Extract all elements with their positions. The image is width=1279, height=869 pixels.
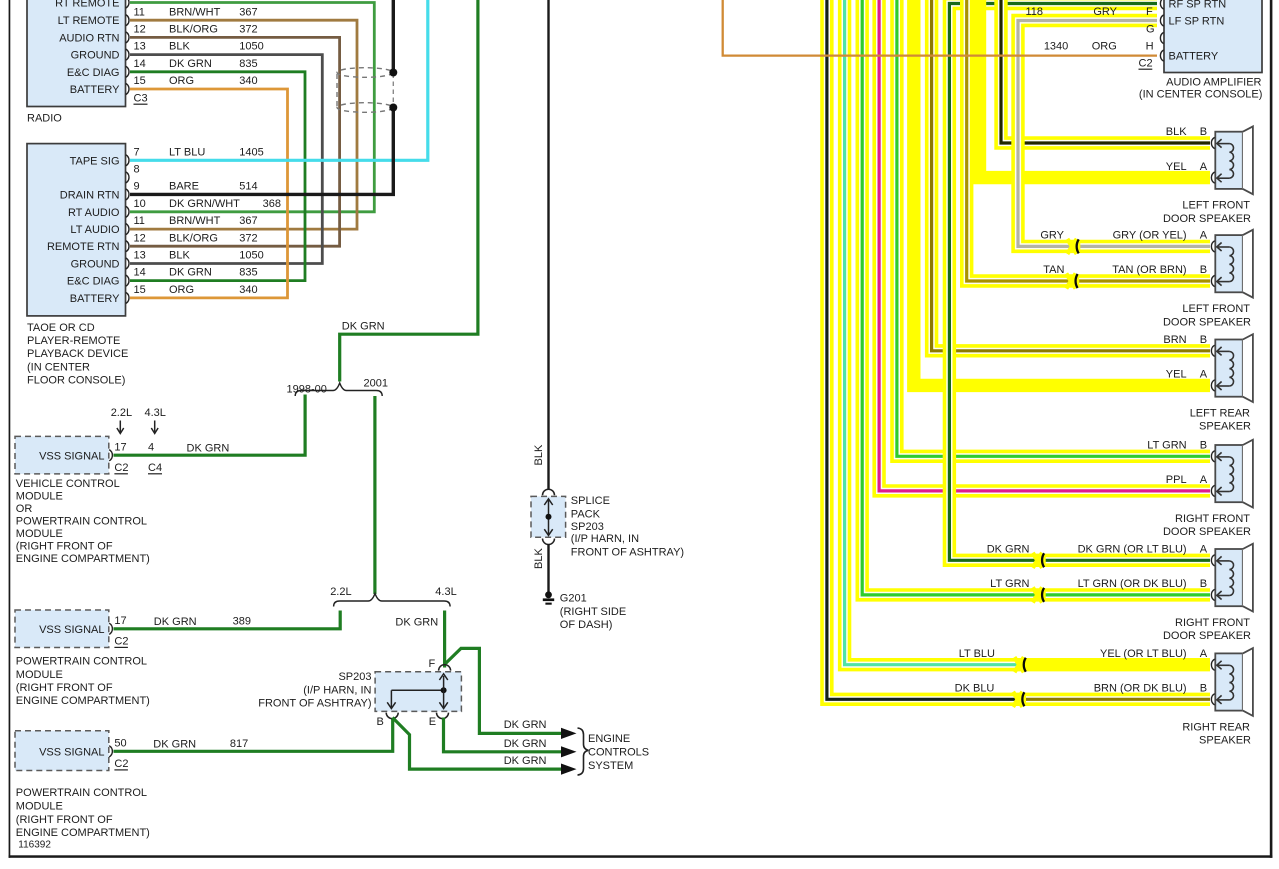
svg-text:2.2L: 2.2L (330, 586, 351, 598)
wire BLK from top to splice pack (547, 0, 549, 489)
svg-text:4: 4 (148, 441, 154, 453)
svg-text:B: B (377, 716, 384, 728)
svg-text:BRN (OR DK BLU): BRN (OR DK BLU) (1094, 683, 1187, 695)
brace engine controls system (578, 728, 589, 775)
svg-text:BLK: BLK (533, 548, 545, 569)
svg-text:GRY: GRY (1093, 6, 1117, 18)
wire DK BLU vertical to right rear speaker B (827, 0, 1021, 699)
wire RT REMOTE staircase (130, 3, 374, 212)
svg-text:1050: 1050 (239, 250, 263, 262)
svg-text:MODULE: MODULE (16, 801, 63, 813)
svg-text:RIGHT REAR: RIGHT REAR (1182, 721, 1250, 733)
svg-text:514: 514 (239, 181, 257, 193)
svg-text:DK GRN: DK GRN (169, 267, 212, 279)
svg-text:MODULE: MODULE (16, 669, 63, 681)
svg-text:POWERTRAIN CONTROL: POWERTRAIN CONTROL (16, 515, 147, 527)
VSS module 3 box (15, 731, 109, 771)
svg-text:SP203: SP203 (338, 671, 371, 683)
svg-text:F: F (429, 658, 436, 670)
svg-text:PLAYER-REMOTE: PLAYER-REMOTE (27, 335, 120, 347)
svg-text:DK GRN: DK GRN (504, 755, 547, 767)
svg-text:A: A (1200, 648, 1208, 660)
svg-text:PACK: PACK (571, 508, 601, 520)
wire 2001 branch down (373, 396, 376, 594)
wire GROUND staircase (130, 55, 322, 264)
svg-text:4.3L: 4.3L (435, 586, 456, 598)
svg-text:DK GRN: DK GRN (153, 738, 196, 750)
speaker RIGHT FRONT DOOR SPEAKER (1211, 544, 1253, 612)
svg-text:ENGINE: ENGINE (588, 733, 630, 745)
svg-text:FRONT OF ASHTRAY): FRONT OF ASHTRAY) (571, 547, 684, 559)
svg-text:B: B (1200, 440, 1207, 452)
svg-text:AUDIO RTN: AUDIO RTN (59, 32, 119, 44)
inline connector GRY row (1067, 239, 1077, 254)
svg-text:C2: C2 (1139, 58, 1153, 70)
wire LT GRN to right front door speaker B (862, 0, 1210, 595)
tape pin clip 8 (126, 172, 129, 183)
svg-text:SPEAKER: SPEAKER (1199, 421, 1251, 433)
wire GRY amp LF SP RTN to left front door speaker A (1018, 21, 1210, 247)
svg-text:DK BLU: DK BLU (955, 683, 995, 695)
svg-text:FRONT OF ASHTRAY): FRONT OF ASHTRAY) (258, 698, 371, 710)
svg-text:835: 835 (239, 267, 257, 279)
svg-text:(IN CENTER CONSOLE): (IN CENTER CONSOLE) (1139, 89, 1262, 101)
inline connector LT GRN row (1033, 587, 1043, 602)
svg-text:DRAIN RTN: DRAIN RTN (60, 189, 120, 201)
svg-text:MODULE: MODULE (16, 528, 63, 540)
svg-text:12: 12 (134, 24, 146, 36)
svg-text:OF DASH): OF DASH) (560, 619, 613, 631)
svg-text:E&C DIAG: E&C DIAG (67, 67, 120, 79)
svg-text:ORG: ORG (1092, 41, 1117, 53)
svg-text:372: 372 (239, 232, 257, 244)
arrow engine controls row 2 (561, 746, 577, 757)
svg-text:VSS SIGNAL: VSS SIGNAL (39, 450, 104, 462)
svg-text:SYSTEM: SYSTEM (588, 760, 633, 772)
svg-text:RIGHT FRONT: RIGHT FRONT (1175, 617, 1250, 629)
wire YEL to left rear speaker A (914, 0, 1210, 385)
svg-text:FLOOR CONSOLE): FLOOR CONSOLE) (27, 374, 125, 386)
svg-text:VEHICLE CONTROL: VEHICLE CONTROL (16, 478, 120, 490)
svg-text:BARE: BARE (169, 181, 199, 193)
svg-text:CONTROLS: CONTROLS (588, 746, 649, 758)
amp pin clip (1160, 50, 1163, 61)
svg-text:372: 372 (239, 24, 257, 36)
svg-text:389: 389 (233, 615, 251, 627)
svg-text:SPLICE: SPLICE (571, 495, 610, 507)
svg-text:DK GRN: DK GRN (395, 616, 438, 628)
wire DK GRN vertical from top (340, 0, 478, 382)
svg-text:B: B (1200, 334, 1207, 346)
wire E&amp;C DIAG staircase (130, 72, 305, 281)
svg-text:DK GRN: DK GRN (342, 321, 385, 333)
shield cylinder symbol (392, 74, 394, 107)
radio pin clip row 3 (126, 32, 129, 43)
radio pin clip row 5 (126, 66, 129, 77)
svg-text:LT GRN: LT GRN (990, 578, 1029, 590)
svg-text:YEL: YEL (1166, 369, 1187, 381)
svg-text:TAOE OR CD: TAOE OR CD (27, 322, 95, 334)
svg-text:GRY (OR YEL): GRY (OR YEL) (1113, 230, 1187, 242)
svg-text:11: 11 (134, 6, 145, 18)
radio pin clip row 2 (126, 15, 129, 26)
svg-text:VSS SIGNAL: VSS SIGNAL (39, 746, 104, 758)
svg-text:13: 13 (134, 250, 146, 262)
svg-text:DOOR SPEAKER: DOOR SPEAKER (1163, 630, 1251, 642)
svg-text:13: 13 (134, 41, 146, 53)
inline connector LT BLU/YEL row (1014, 657, 1024, 672)
svg-text:LT BLU: LT BLU (959, 648, 995, 660)
VSS module 1 box (15, 436, 109, 474)
svg-text:REMOTE RTN: REMOTE RTN (47, 241, 120, 253)
wire 2.2L branch to VSS2 (114, 611, 341, 629)
svg-text:RIGHT FRONT: RIGHT FRONT (1175, 513, 1250, 525)
svg-text:BRN/WHT: BRN/WHT (169, 6, 221, 18)
svg-text:BRN/WHT: BRN/WHT (169, 215, 221, 227)
svg-text:C2: C2 (114, 462, 128, 474)
svg-text:(RIGHT FRONT OF: (RIGHT FRONT OF (16, 682, 113, 694)
tape pin clip 9 (126, 189, 129, 200)
svg-text:POWERTRAIN CONTROL: POWERTRAIN CONTROL (16, 787, 147, 799)
speaker LEFT REAR SPEAKER (1211, 334, 1253, 402)
wire TAN to left front door speaker B (967, 0, 1210, 281)
svg-text:(RIGHT SIDE: (RIGHT SIDE (560, 606, 626, 618)
tape pin clip 15 (126, 292, 129, 303)
tape pin clip 14 (126, 275, 129, 286)
svg-text:LT BLU: LT BLU (169, 146, 205, 158)
year split brace 1998-00/2001 (295, 383, 382, 396)
svg-text:F: F (1146, 6, 1153, 18)
svg-text:DK GRN: DK GRN (987, 544, 1030, 556)
svg-text:A: A (1200, 369, 1208, 381)
svg-text:TAN: TAN (1043, 264, 1064, 276)
amp pin clip (1160, 32, 1163, 43)
svg-text:LEFT FRONT: LEFT FRONT (1182, 303, 1250, 315)
svg-text:LF SP RTN: LF SP RTN (1169, 16, 1225, 28)
svg-text:GRY: GRY (1040, 230, 1064, 242)
wire YEL to left front door speaker A (980, 0, 1211, 178)
speaker RIGHT FRONT DOOR SPEAKER (1211, 440, 1253, 508)
inline connector DK GRN row (1033, 553, 1043, 568)
wire YEL (OR LT BLU) right segment (1022, 658, 1210, 671)
svg-text:PLAYBACK DEVICE: PLAYBACK DEVICE (27, 348, 128, 360)
svg-text:ORG: ORG (169, 284, 194, 296)
svg-text:AUDIO AMPLIFIER: AUDIO AMPLIFIER (1166, 77, 1261, 89)
wire PPL to right front door speaker A (879, 0, 1210, 491)
svg-text:367: 367 (239, 215, 257, 227)
svg-text:340: 340 (239, 284, 257, 296)
svg-text:LT AUDIO: LT AUDIO (70, 224, 120, 236)
wire BRN (OR DK BLU) right segment (1021, 693, 1210, 706)
svg-text:9: 9 (134, 181, 140, 193)
tape pin clip 7 (126, 155, 129, 166)
svg-text:BLK: BLK (169, 250, 190, 262)
svg-text:POWERTRAIN CONTROL: POWERTRAIN CONTROL (16, 656, 147, 668)
wire ORG 1340 battery feed (723, 0, 1157, 56)
svg-text:ENGINE COMPARTMENT): ENGINE COMPARTMENT) (16, 553, 150, 565)
svg-text:GROUND: GROUND (71, 259, 120, 271)
arrow engine controls row 1 (561, 728, 577, 739)
svg-text:BLK/ORG: BLK/ORG (169, 24, 218, 36)
svg-text:SPEAKER: SPEAKER (1199, 735, 1251, 747)
svg-text:LEFT REAR: LEFT REAR (1190, 407, 1250, 419)
svg-text:BATTERY: BATTERY (70, 293, 120, 305)
svg-text:YEL (OR LT BLU): YEL (OR LT BLU) (1100, 648, 1187, 660)
svg-text:10: 10 (134, 198, 146, 210)
wire BATTERY staircase (130, 89, 288, 298)
svg-text:DK GRN: DK GRN (504, 738, 547, 750)
svg-text:17: 17 (114, 441, 126, 453)
svg-text:A: A (1200, 474, 1208, 486)
VSS module 2 box (15, 610, 109, 648)
svg-text:PPL: PPL (1166, 474, 1187, 486)
svg-text:15: 15 (134, 284, 146, 296)
svg-text:H: H (1146, 41, 1154, 53)
svg-text:15: 15 (134, 75, 146, 87)
svg-text:2.2L: 2.2L (111, 407, 132, 419)
audio amplifier box (1164, 0, 1262, 73)
svg-text:G201: G201 (560, 593, 587, 605)
wire 1998-00 branch to VSS1 (114, 395, 306, 456)
svg-text:RF SP RTN: RF SP RTN (1169, 0, 1227, 11)
radio pin clip row 6 (126, 83, 129, 94)
svg-text:DK GRN: DK GRN (154, 616, 197, 628)
svg-text:G: G (1146, 23, 1155, 35)
svg-text:BLK/ORG: BLK/ORG (169, 232, 218, 244)
svg-text:E&C DIAG: E&C DIAG (67, 276, 120, 288)
svg-text:(I/P HARN, IN: (I/P HARN, IN (303, 684, 371, 696)
svg-text:1405: 1405 (239, 146, 263, 158)
svg-text:MODULE: MODULE (16, 490, 63, 502)
svg-text:17: 17 (114, 615, 126, 627)
svg-text:TAPE SIG: TAPE SIG (70, 155, 120, 167)
svg-text:TAN (OR BRN): TAN (OR BRN) (1112, 264, 1186, 276)
inline connector DK BLU/BRN row (1013, 692, 1023, 707)
svg-text:12: 12 (134, 232, 146, 244)
svg-text:ENGINE COMPARTMENT): ENGINE COMPARTMENT) (16, 695, 150, 707)
wire splice E to engine controls row 2 (444, 718, 563, 752)
svg-text:RT REMOTE: RT REMOTE (55, 0, 119, 10)
speaker RIGHT REAR SPEAKER (1211, 648, 1253, 716)
svg-text:118: 118 (1025, 6, 1043, 18)
shield junction dots (389, 69, 397, 77)
wire BLK splice to ground (547, 544, 549, 592)
svg-text:7: 7 (134, 146, 140, 158)
wire LT BLU vertical to right rear speaker A (845, 0, 1023, 665)
wire AUDIO RTN staircase (130, 37, 340, 246)
wire LT REMOTE staircase (130, 20, 357, 229)
svg-text:(RIGHT FRONT OF: (RIGHT FRONT OF (16, 540, 113, 552)
svg-text:BLK: BLK (169, 41, 190, 53)
svg-text:ORG: ORG (169, 75, 194, 87)
svg-text:RT AUDIO: RT AUDIO (68, 207, 120, 219)
svg-text:1050: 1050 (239, 41, 263, 53)
amp pin clip (1160, 0, 1163, 9)
engine split brace 2.2L/4.3L (334, 594, 451, 607)
svg-text:1998-00: 1998-00 (287, 384, 327, 396)
svg-text:DOOR SPEAKER: DOOR SPEAKER (1163, 213, 1251, 225)
svg-text:14: 14 (134, 267, 146, 279)
svg-text:8: 8 (134, 164, 140, 176)
speaker LEFT FRONT DOOR SPEAKER (1211, 126, 1253, 194)
radio pin clip row 4 (126, 49, 129, 60)
border frame (9, 0, 11, 858)
tape pin clip 11 (126, 224, 129, 235)
svg-text:817: 817 (230, 738, 248, 750)
svg-text:14: 14 (134, 58, 146, 70)
radio pin clip row 1 (126, 0, 129, 8)
radio RADIO box (27, 0, 126, 107)
svg-text:DOOR SPEAKER: DOOR SPEAKER (1163, 526, 1251, 538)
svg-text:ENGINE COMPARTMENT): ENGINE COMPARTMENT) (16, 827, 150, 839)
svg-text:C4: C4 (148, 462, 162, 474)
svg-text:DOOR SPEAKER: DOOR SPEAKER (1163, 316, 1251, 328)
svg-text:116392: 116392 (18, 840, 51, 851)
svg-text:1340: 1340 (1044, 41, 1068, 53)
svg-text:BLK: BLK (1166, 126, 1187, 138)
svg-text:BRN: BRN (1163, 334, 1186, 346)
svg-text:GROUND: GROUND (71, 50, 120, 62)
splice pack SP203 box (F/B/E) (375, 672, 461, 712)
wire BRN to left rear speaker B (932, 0, 1210, 351)
svg-text:DK GRN: DK GRN (504, 719, 547, 731)
svg-text:E: E (429, 716, 436, 728)
svg-text:DK GRN: DK GRN (187, 442, 230, 454)
svg-text:C2: C2 (114, 758, 128, 770)
svg-text:4.3L: 4.3L (145, 407, 166, 419)
svg-text:LT GRN: LT GRN (1147, 440, 1186, 452)
svg-text:YEL: YEL (1166, 161, 1187, 173)
amp pin clip (1160, 15, 1163, 26)
svg-text:2001: 2001 (364, 378, 388, 390)
splice internal arrows (391, 689, 443, 691)
svg-text:B: B (1200, 578, 1207, 590)
svg-text:VSS SIGNAL: VSS SIGNAL (39, 624, 104, 636)
arrow engine controls row 3 (561, 764, 577, 775)
wire splice B to engine controls row 3 (393, 718, 563, 770)
wire splice F to engine controls row 1 (446, 648, 563, 733)
wire 4.3L branch to splice F (443, 611, 446, 668)
tape pin clip 10 (126, 206, 129, 217)
svg-text:DK GRN (OR LT BLU): DK GRN (OR LT BLU) (1078, 544, 1187, 556)
svg-text:340: 340 (239, 75, 257, 87)
svg-text:A: A (1200, 161, 1208, 173)
svg-text:B: B (1200, 126, 1207, 138)
svg-text:LT REMOTE: LT REMOTE (58, 15, 120, 27)
tape/CD player box (27, 144, 126, 316)
svg-text:A: A (1200, 544, 1208, 556)
wire VSS3 to splice B (114, 719, 393, 751)
svg-text:BATTERY: BATTERY (70, 84, 120, 96)
speaker LEFT FRONT DOOR SPEAKER (1211, 230, 1253, 298)
svg-text:BLK: BLK (533, 444, 545, 465)
wire DK GRN amp RF SP RTN to right front door speaker A (949, 4, 1210, 561)
svg-text:368: 368 (263, 198, 281, 210)
svg-text:LT GRN (OR DK BLU): LT GRN (OR DK BLU) (1078, 578, 1187, 590)
tape pin clip 12 (126, 241, 129, 252)
svg-text:C2: C2 (114, 636, 128, 648)
svg-text:A: A (1200, 230, 1208, 242)
tape pin clip 13 (126, 258, 129, 269)
svg-text:RADIO: RADIO (27, 113, 62, 125)
svg-text:BATTERY: BATTERY (1169, 51, 1219, 63)
wire LT BLU 1405 tape sig (130, 0, 428, 160)
svg-text:(I/P HARN, IN: (I/P HARN, IN (571, 533, 639, 545)
svg-text:C3: C3 (134, 93, 148, 105)
svg-text:B: B (1200, 683, 1207, 695)
svg-text:DK GRN: DK GRN (169, 58, 212, 70)
svg-text:50: 50 (114, 737, 126, 749)
wire BARE 514 shield drain (392, 0, 395, 73)
svg-text:B: B (1200, 264, 1207, 276)
splice pack SP203 box upper (543, 489, 555, 495)
svg-text:(RIGHT FRONT OF: (RIGHT FRONT OF (16, 814, 113, 826)
svg-text:(IN CENTER: (IN CENTER (27, 361, 90, 373)
svg-text:LEFT FRONT: LEFT FRONT (1182, 200, 1250, 212)
ground G201 (545, 591, 552, 598)
svg-text:DK GRN/WHT: DK GRN/WHT (169, 198, 240, 210)
wire LT GRN to right front door speaker B upper (897, 0, 1210, 456)
svg-text:11: 11 (134, 215, 145, 227)
svg-text:835: 835 (239, 58, 257, 70)
svg-text:OR: OR (16, 503, 33, 515)
inline connector TAN row (1066, 274, 1076, 289)
wire BLK to left front door speaker B (1001, 0, 1210, 143)
svg-text:SP203: SP203 (571, 521, 604, 533)
svg-text:367: 367 (239, 6, 257, 18)
